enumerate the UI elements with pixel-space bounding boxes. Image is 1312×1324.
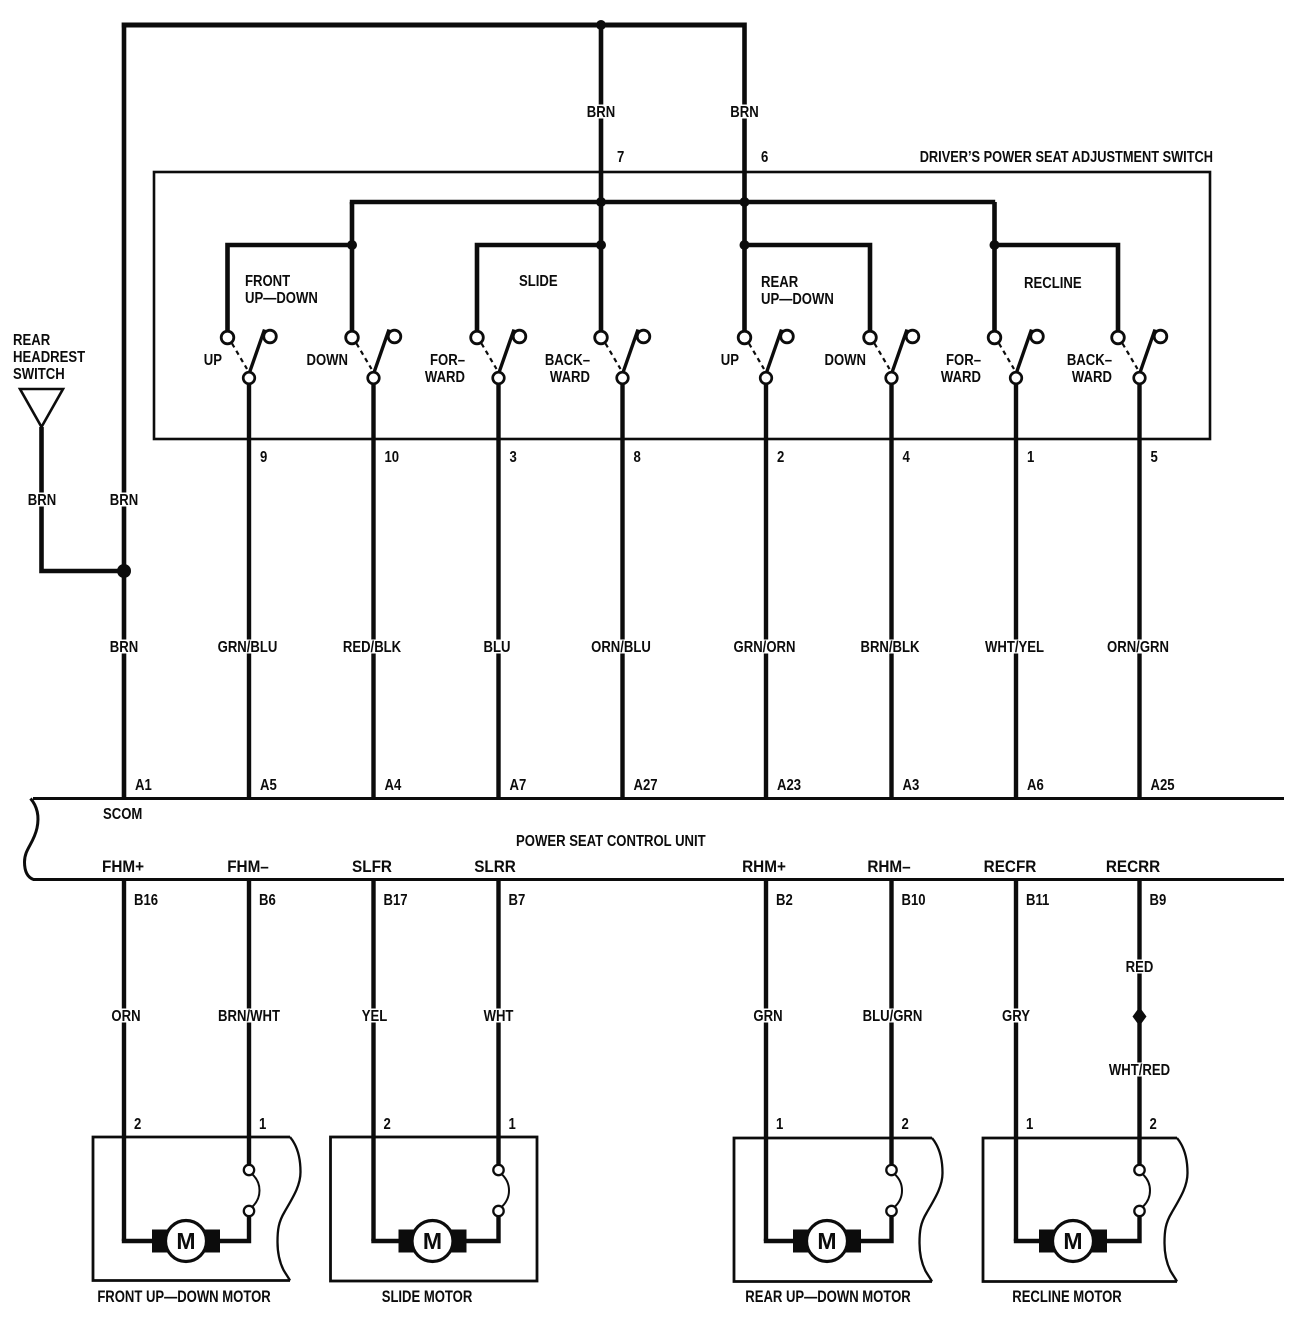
switch S-slide-forward: fixed contact (open)	[513, 330, 526, 343]
svg-text:B6: B6	[259, 892, 276, 909]
svg-text:A25: A25	[1151, 777, 1175, 794]
svg-text:M: M	[176, 1228, 195, 1254]
svg-text:2: 2	[384, 1116, 391, 1133]
svg-text:B11: B11	[1026, 892, 1049, 909]
svg-text:GRN: GRN	[753, 1008, 782, 1025]
switch S-recline-backward: dashed actuator link	[1123, 344, 1138, 370]
svg-text:7: 7	[617, 149, 624, 166]
svg-text:B10: B10	[902, 892, 926, 909]
switch S-front-up: fixed contact (open)	[264, 330, 277, 343]
switch S-rear-up: fixed contact (open)	[781, 330, 794, 343]
svg-text:BRN: BRN	[110, 639, 138, 656]
svg-text:2: 2	[777, 449, 784, 466]
label: wire colour RED/BLK	[343, 639, 402, 656]
svg-text:BACK–: BACK–	[1067, 352, 1112, 369]
label: FOR-/WARD (slide-forward)	[425, 352, 465, 386]
svg-text:4: 4	[903, 449, 911, 466]
label: RECFR terminal	[984, 857, 1037, 876]
label: RECLINE group	[1024, 275, 1082, 292]
switch S-recline-forward: blade	[1017, 330, 1032, 373]
label: FHM- terminal	[227, 857, 269, 876]
label: wire colour BLU	[484, 639, 511, 656]
switch S-rear-up: dashed actuator link	[749, 344, 764, 370]
svg-text:WARD: WARD	[941, 369, 981, 386]
svg-text:8: 8	[634, 449, 641, 466]
svg-text:1: 1	[1027, 449, 1034, 466]
switch S-front-down: fixed contact (open)	[388, 330, 401, 343]
label: connector pin B10	[902, 892, 926, 909]
slide motor: breaker lower contact	[493, 1206, 503, 1216]
label: RHM+ terminal	[742, 857, 786, 876]
label: switch pin 5	[1151, 449, 1158, 466]
svg-text:WARD: WARD	[425, 369, 465, 386]
svg-text:SLFR: SLFR	[352, 857, 392, 876]
driver's power seat adjustment switch box outline	[154, 172, 1210, 439]
label: wire colour WHT/RED	[1109, 1062, 1170, 1079]
label: connector pin A25	[1151, 777, 1175, 794]
front up-down motor: left lead from 2	[122, 880, 126, 1242]
switch S-slide-forward: fixed contact (fed)	[471, 331, 484, 344]
label: wire colour RED	[1126, 959, 1154, 976]
label: SCOM terminal	[103, 806, 142, 823]
svg-text:RED/BLK: RED/BLK	[343, 639, 402, 656]
label: connector pin A4	[385, 777, 403, 794]
switch S-front-up: common contact	[243, 372, 255, 384]
svg-text:WHT: WHT	[484, 1008, 514, 1025]
svg-text:B17: B17	[384, 892, 408, 909]
label: REAR UP&#8212;DOWN MOTOR	[745, 1287, 910, 1306]
svg-text:5: 5	[1151, 449, 1158, 466]
junction J1: top bus to pin-7 drop	[596, 20, 606, 30]
svg-text:RECRR: RECRR	[1106, 857, 1161, 876]
label: wire colour WHT/YEL	[985, 639, 1044, 656]
junction J6: slide branch tee on pin-7 drop	[596, 240, 606, 250]
front up-down motor: case outline	[93, 1137, 301, 1281]
rear up-down motor: left lead to motor	[764, 1239, 795, 1243]
label: connector pin B11	[1026, 892, 1049, 909]
svg-text:WARD: WARD	[550, 369, 590, 386]
label: connector pin A7	[510, 777, 527, 794]
label: connector pin A23	[777, 777, 801, 794]
wire W11: recline feed drop	[992, 202, 997, 333]
svg-text:BRN: BRN	[28, 492, 56, 509]
slide motor: left lead from 2	[371, 880, 375, 1242]
label: wire colour GRY	[1002, 1008, 1030, 1025]
wire W3: BRN drop to switch pin 7	[599, 25, 604, 333]
label: SLIDE group	[519, 273, 558, 290]
rear up-down motor: case outline	[734, 1138, 943, 1282]
switch S-rear-down: dashed actuator link	[875, 344, 890, 370]
label: switch pin 10	[385, 449, 400, 466]
wire: switch output 8 -> A27 (ORN/BLU)	[620, 384, 624, 799]
label: wire colour GRN	[753, 1008, 782, 1025]
rear up-down motor: breaker arc blade	[895, 1174, 903, 1207]
switch S-recline-backward: common contact	[1134, 372, 1146, 384]
switch S-slide-backward: common contact	[617, 372, 629, 384]
label: RHM- terminal	[867, 857, 910, 876]
label: DOWN (front-down)	[306, 352, 348, 369]
label: BRN on pin-7 drop	[587, 104, 615, 121]
svg-text:POWER SEAT CONTROL UNIT: POWER SEAT CONTROL UNIT	[516, 833, 706, 850]
label: wire colour BLU/GRN	[863, 1008, 923, 1025]
svg-text:RECLINE: RECLINE	[1024, 275, 1082, 292]
svg-text:REAR: REAR	[761, 274, 799, 291]
wire: switch output 10 -> A4 (RED/BLK)	[371, 384, 375, 799]
wire W9: branch to SLIDE FORWARD contact	[477, 245, 601, 333]
svg-text:2: 2	[902, 1116, 909, 1133]
switch S-recline-forward: dashed actuator link	[999, 344, 1014, 370]
label: FHM+ terminal	[102, 857, 144, 876]
label: switch pin 9	[260, 449, 267, 466]
switch S-rear-down: common contact	[886, 372, 898, 384]
label: wire colour WHT	[484, 1008, 514, 1025]
svg-text:YEL: YEL	[362, 1008, 388, 1025]
label: RECLINE MOTOR	[1012, 1287, 1122, 1306]
svg-text:DOWN: DOWN	[824, 352, 866, 369]
switch S-rear-down: fixed contact (fed)	[864, 331, 877, 344]
switch S-slide-forward: blade	[499, 330, 514, 373]
svg-text:A27: A27	[634, 777, 658, 794]
svg-text:BRN: BRN	[730, 104, 758, 121]
svg-text:UP: UP	[721, 352, 739, 369]
label: wire colour BRN/WHT	[218, 1008, 280, 1025]
slide motor: case outline	[331, 1137, 538, 1281]
power seat control unit: top edge	[33, 797, 1284, 800]
label: wire colour GRN/ORN	[734, 639, 796, 656]
svg-text:1: 1	[259, 1116, 266, 1133]
label: connector pin B6	[259, 892, 276, 909]
svg-text:BLU/GRN: BLU/GRN	[863, 1008, 923, 1025]
front up-down motor: left lead to motor	[122, 1239, 154, 1243]
svg-text:GRN/ORN: GRN/ORN	[734, 639, 796, 656]
svg-text:B7: B7	[509, 892, 526, 909]
label: UP (rear-up)	[721, 352, 739, 369]
label: SLIDE MOTOR	[382, 1287, 473, 1306]
rear up-down motor: motor M	[793, 1221, 861, 1262]
recline motor: left lead to motor	[1014, 1239, 1041, 1243]
switch S-slide-backward: blade	[623, 330, 638, 373]
switch S-rear-down: fixed contact (open)	[906, 330, 919, 343]
label: REAR UP-DOWN group	[761, 274, 834, 308]
wire W6: common bus inside switch (y=202)	[350, 200, 995, 205]
svg-text:BRN: BRN	[110, 492, 138, 509]
label: switch pin 3	[510, 449, 517, 466]
label: switch pin 1	[1027, 449, 1034, 466]
rear up-down motor: pin 2 label	[902, 1116, 909, 1133]
slide motor: breaker arc blade	[502, 1174, 510, 1207]
label: RECRR terminal	[1106, 857, 1161, 876]
switch S-recline-forward: common contact	[1010, 372, 1022, 384]
junction J8: recline branch tee	[990, 240, 1000, 250]
front up-down motor: breaker lower contact	[244, 1206, 254, 1216]
svg-text:REAR UP—DOWN MOTOR: REAR UP—DOWN MOTOR	[745, 1287, 910, 1306]
front up-down motor: breaker arc blade	[252, 1174, 260, 1207]
front up-down motor: breaker upper contact	[244, 1165, 254, 1175]
rear up-down motor: right lead to motor	[859, 1216, 892, 1241]
switch S-front-down: blade	[374, 330, 389, 373]
wire: switch output 9 -> A5 (GRN/BLU)	[247, 384, 251, 799]
svg-text:A6: A6	[1027, 777, 1044, 794]
switch S-rear-down: blade	[892, 330, 907, 373]
label: connector pin A5	[260, 777, 277, 794]
label: switch pin 8	[634, 449, 641, 466]
wire W2: left BRN riser (to SCOM A1)	[122, 23, 127, 800]
svg-text:FOR–: FOR–	[946, 352, 981, 369]
label: BRN on left riser (upper)	[110, 492, 138, 509]
recline motor: case outline	[983, 1138, 1188, 1282]
label: DOWN (rear-down)	[824, 352, 866, 369]
slide motor: pin 1 label	[509, 1116, 516, 1133]
junction J4: bus to pin-6 drop	[740, 197, 750, 207]
svg-text:SLIDE MOTOR: SLIDE MOTOR	[382, 1287, 473, 1306]
svg-text:BRN/BLK: BRN/BLK	[860, 639, 919, 656]
label: FRONT UP&#8212;DOWN MOTOR	[97, 1287, 270, 1306]
svg-text:FRONT UP—DOWN MOTOR: FRONT UP—DOWN MOTOR	[97, 1287, 270, 1306]
slide motor: pin 2 label	[384, 1116, 391, 1133]
rear up-down motor: breaker upper contact	[886, 1165, 896, 1175]
svg-text:WHT/YEL: WHT/YEL	[985, 639, 1044, 656]
switch S-slide-backward: dashed actuator link	[606, 344, 621, 370]
label: wire colour ORN/GRN	[1107, 639, 1169, 656]
switch S-slide-forward: common contact	[493, 372, 505, 384]
label: connector pin A27	[634, 777, 658, 794]
svg-text:BACK–: BACK–	[545, 352, 590, 369]
rear headrest switch symbol (triangle)	[20, 389, 63, 427]
svg-text:A23: A23	[777, 777, 801, 794]
svg-text:A5: A5	[260, 777, 277, 794]
svg-text:BRN: BRN	[587, 104, 615, 121]
wire W7: branch to FRONT DOWN contact	[350, 202, 355, 333]
junction J5: front branch tee	[347, 240, 357, 250]
wire W4: BRN drop to switch pin 6	[742, 23, 747, 334]
recline motor: breaker lower contact	[1134, 1206, 1144, 1216]
switch S-slide-backward: fixed contact (open)	[637, 330, 650, 343]
label: BACK-/WARD (recline-backward)	[1067, 352, 1112, 386]
svg-text:BRN/WHT: BRN/WHT	[218, 1008, 280, 1025]
junction J7: rear branch tee on pin-6 drop	[740, 240, 750, 250]
svg-text:RED: RED	[1126, 959, 1154, 976]
label: wire colour GRN/BLU	[218, 639, 278, 656]
svg-text:SCOM: SCOM	[103, 806, 142, 823]
label: BRN on left riser (lower)	[110, 639, 138, 656]
switch S-recline-backward: blade	[1140, 330, 1155, 373]
svg-text:GRY: GRY	[1002, 1008, 1030, 1025]
junction J2: headrest lead joins left riser	[117, 564, 131, 578]
rear up-down motor: left lead from 1	[764, 880, 768, 1242]
svg-text:DRIVER’S POWER SEAT ADJUSTMENT: DRIVER’S POWER SEAT ADJUSTMENT SWITCH	[920, 149, 1213, 167]
power seat control unit: torn left edge	[25, 799, 38, 880]
label: connector pin A6	[1027, 777, 1044, 794]
switch S-recline-backward: fixed contact (open)	[1154, 330, 1167, 343]
svg-text:9: 9	[260, 449, 267, 466]
wire W5: headrest switch lead to riser junction	[42, 427, 125, 571]
svg-text:B2: B2	[776, 892, 793, 909]
label: connector pin B2	[776, 892, 793, 909]
label: REAR HEADREST SWITCH	[13, 332, 85, 383]
switch S-slide-forward: dashed actuator link	[482, 344, 497, 370]
switch S-rear-up: fixed contact (fed)	[738, 331, 751, 344]
slide motor: right lead to motor	[465, 1216, 499, 1241]
label: pin 6	[761, 149, 768, 166]
svg-text:2: 2	[1150, 1116, 1157, 1133]
switch S-rear-up: common contact	[760, 372, 772, 384]
wire: switch output 3 -> A7 (BLU)	[496, 384, 500, 799]
svg-text:UP: UP	[204, 352, 222, 369]
svg-text:A1: A1	[135, 777, 152, 794]
junction J3: bus to pin-7 drop	[596, 197, 606, 207]
recline motor: right lead to motor	[1105, 1216, 1140, 1241]
svg-text:M: M	[1063, 1228, 1082, 1254]
svg-text:RECLINE MOTOR: RECLINE MOTOR	[1012, 1287, 1122, 1306]
label: connector pin B9	[1150, 892, 1167, 909]
switch S-recline-backward: fixed contact (fed)	[1112, 331, 1125, 344]
label: wire colour ORN	[111, 1008, 140, 1025]
svg-text:SLIDE: SLIDE	[519, 273, 558, 290]
svg-text:SLRR: SLRR	[474, 857, 516, 876]
front up-down motor: pin 1 label	[259, 1116, 266, 1133]
switch S-recline-forward: fixed contact (fed)	[988, 331, 1001, 344]
svg-text:HEADREST: HEADREST	[13, 349, 85, 366]
label: SLRR terminal	[474, 857, 516, 876]
switch S-recline-forward: fixed contact (open)	[1031, 330, 1044, 343]
switch S-front-down: dashed actuator link	[357, 344, 372, 370]
label: wire colour YEL	[362, 1008, 388, 1025]
label: pin 7	[617, 149, 624, 166]
slide motor: right lead from 1	[496, 880, 500, 1166]
power seat control unit: bottom edge	[33, 878, 1284, 881]
svg-text:RECFR: RECFR	[984, 857, 1037, 876]
rear up-down motor: pin 1 label	[776, 1116, 783, 1133]
front up-down motor: right lead to motor	[218, 1216, 249, 1241]
svg-text:BLU: BLU	[484, 639, 511, 656]
svg-text:UP—DOWN: UP—DOWN	[761, 291, 834, 308]
switch S-front-down: fixed contact (fed)	[346, 331, 359, 344]
switch S-front-up: blade	[250, 330, 265, 373]
rear up-down motor: breaker lower contact	[886, 1206, 896, 1216]
label: connector pin B17	[384, 892, 408, 909]
svg-text:ORN: ORN	[111, 1008, 140, 1025]
rear up-down motor: right lead from 2	[889, 880, 893, 1166]
label: SLFR terminal	[352, 857, 392, 876]
svg-text:A3: A3	[903, 777, 920, 794]
svg-text:RHM+: RHM+	[742, 857, 786, 876]
switch S-rear-up: blade	[767, 330, 782, 373]
front up-down motor: pin 2 label	[134, 1116, 141, 1133]
svg-text:A4: A4	[385, 777, 403, 794]
svg-text:1: 1	[776, 1116, 783, 1133]
wire: switch output 2 -> A23 (GRN/ORN)	[764, 384, 768, 799]
label: POWER SEAT CONTROL UNIT	[516, 833, 706, 850]
wire: switch output 5 -> A25 (ORN/GRN)	[1137, 384, 1141, 799]
switch S-front-down: common contact	[368, 372, 380, 384]
svg-text:ORN/GRN: ORN/GRN	[1107, 639, 1169, 656]
svg-text:RHM–: RHM–	[867, 857, 910, 876]
recline motor: motor M	[1039, 1221, 1107, 1262]
recline motor: breaker arc blade	[1143, 1174, 1151, 1207]
svg-text:SWITCH: SWITCH	[13, 366, 65, 383]
svg-text:GRN/BLU: GRN/BLU	[218, 639, 278, 656]
slide motor: left lead to motor	[371, 1239, 400, 1243]
connector: in-line joint on recline feed (diamond)	[1133, 1007, 1147, 1026]
label: switch pin 4	[903, 449, 911, 466]
label: connector pin B16	[134, 892, 158, 909]
wire: switch output 4 -> A3 (BRN/BLK)	[889, 384, 893, 799]
wire: switch output 1 -> A6 (WHT/YEL)	[1014, 384, 1018, 799]
svg-text:B9: B9	[1150, 892, 1167, 909]
svg-text:FHM+: FHM+	[102, 857, 144, 876]
label: BRN on headrest lead	[28, 492, 56, 509]
slide motor: breaker upper contact	[493, 1165, 503, 1175]
recline motor: right lead from 2	[1137, 880, 1141, 1166]
svg-text:1: 1	[509, 1116, 516, 1133]
svg-text:3: 3	[510, 449, 517, 466]
svg-text:1: 1	[1026, 1116, 1033, 1133]
label: switch pin 2	[777, 449, 784, 466]
label: BRN on pin-6 drop	[730, 104, 758, 121]
wire W1: battery feed, top horizontal BRN bus	[122, 23, 746, 28]
svg-text:M: M	[817, 1228, 836, 1254]
wire W8: branch to FRONT UP contact	[228, 245, 353, 333]
front up-down motor: motor M	[152, 1221, 220, 1262]
label: UP (front-up)	[204, 352, 222, 369]
label: connector pin B7	[509, 892, 526, 909]
svg-text:FHM–: FHM–	[227, 857, 269, 876]
svg-text:REAR: REAR	[13, 332, 51, 349]
label: connector pin A3	[903, 777, 920, 794]
label: FRONT UP-DOWN group	[245, 273, 318, 307]
label: wire colour BRN/BLK	[860, 639, 919, 656]
wire W10: branch to REAR DOWN contact	[745, 245, 871, 333]
svg-text:DOWN: DOWN	[306, 352, 348, 369]
slide motor: motor M	[399, 1221, 467, 1262]
svg-text:6: 6	[761, 149, 768, 166]
switch S-slide-backward: fixed contact (fed)	[595, 331, 608, 344]
svg-text:10: 10	[385, 449, 400, 466]
label: DRIVER'S POWER SEAT ADJUSTMENT SWITCH	[920, 149, 1213, 167]
switch S-front-up: dashed actuator link	[232, 344, 247, 370]
svg-text:M: M	[423, 1228, 442, 1254]
recline motor: left lead from 1	[1014, 880, 1018, 1242]
svg-text:FRONT: FRONT	[245, 273, 290, 290]
recline motor: breaker upper contact	[1134, 1165, 1144, 1175]
wire W12: branch to RECLINE BACKWARD contact	[995, 245, 1119, 333]
label: wire colour ORN/BLU	[591, 639, 651, 656]
svg-text:2: 2	[134, 1116, 141, 1133]
svg-text:ORN/BLU: ORN/BLU	[591, 639, 651, 656]
recline motor: pin 2 label	[1150, 1116, 1157, 1133]
label: BACK-/WARD (slide-backward)	[545, 352, 590, 386]
label: FOR-/WARD (recline-forward)	[941, 352, 981, 386]
svg-text:UP—DOWN: UP—DOWN	[245, 290, 318, 307]
svg-text:WHT/RED: WHT/RED	[1109, 1062, 1170, 1079]
switch S-front-up: fixed contact (fed)	[221, 331, 234, 344]
recline motor: pin 1 label	[1026, 1116, 1033, 1133]
svg-text:B16: B16	[134, 892, 158, 909]
svg-text:WARD: WARD	[1072, 369, 1112, 386]
label: connector pin A1	[135, 777, 152, 794]
front up-down motor: right lead from 1	[247, 880, 251, 1166]
svg-text:FOR–: FOR–	[430, 352, 465, 369]
svg-text:A7: A7	[510, 777, 527, 794]
